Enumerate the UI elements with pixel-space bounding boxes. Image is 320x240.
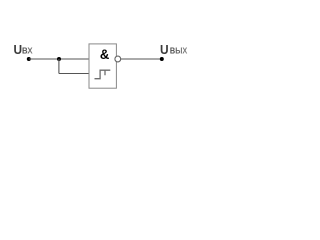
node Uвых terminal dot bbox=[160, 57, 164, 61]
node Uвх terminal dot bbox=[27, 57, 31, 61]
inversion bubble bbox=[115, 56, 121, 62]
svg-text:U: U bbox=[14, 42, 23, 57]
wire branch vertical bbox=[58, 59, 60, 74]
svg-text:&: & bbox=[100, 47, 110, 62]
svg-text:U: U bbox=[160, 42, 169, 57]
svg-text:ВХ: ВХ bbox=[22, 45, 33, 55]
wire input horizontal bbox=[29, 58, 89, 60]
schmitt hysteresis symbol bbox=[95, 70, 111, 79]
svg-text:ВЫХ: ВЫХ bbox=[170, 45, 188, 55]
wire output bbox=[121, 58, 162, 60]
gate DD1 body bbox=[89, 44, 116, 88]
wire branch horizontal to second input bbox=[59, 73, 89, 75]
junction dot bbox=[57, 57, 61, 61]
